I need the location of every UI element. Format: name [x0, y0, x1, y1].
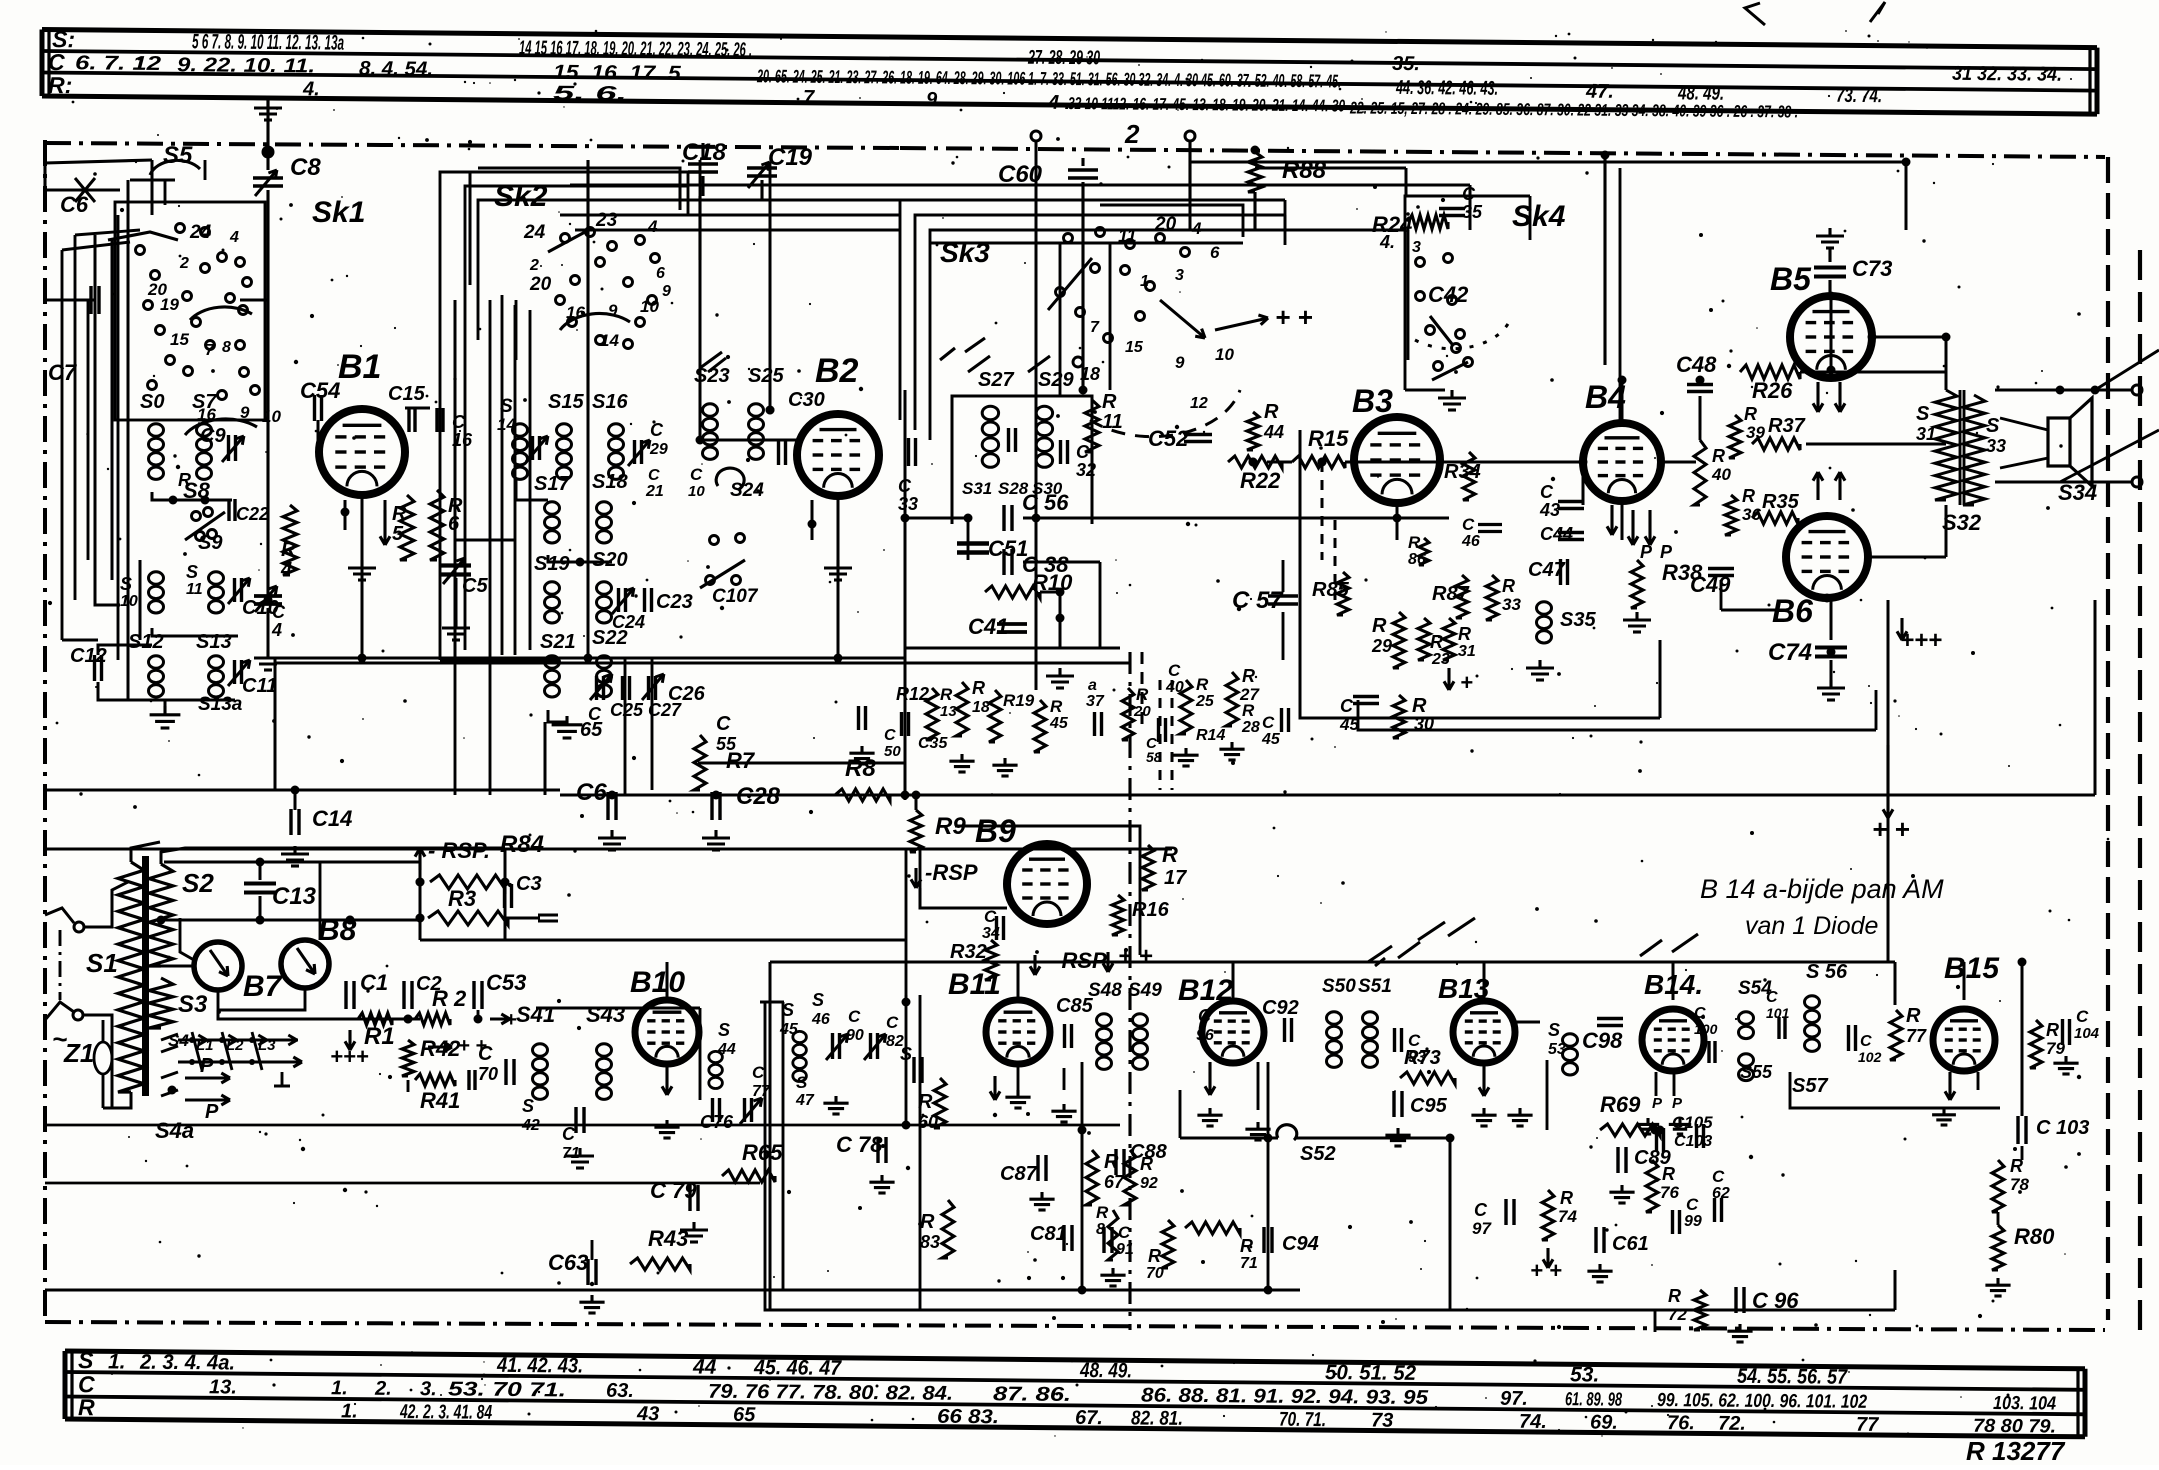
svg-text:R: R [1050, 697, 1063, 716]
svg-text:S49: S49 [1128, 980, 1162, 1001]
svg-text:B3: B3 [1352, 383, 1393, 419]
svg-text:+ +: + + [1118, 943, 1153, 970]
svg-text:S13a: S13a [198, 694, 243, 715]
svg-text:67.: 67. [1075, 1407, 1103, 1429]
svg-text:46: 46 [811, 1011, 830, 1028]
svg-text:S31: S31 [962, 479, 992, 498]
svg-text:S5: S5 [163, 142, 193, 169]
svg-text:S35: S35 [1560, 609, 1596, 631]
svg-text:4: 4 [647, 217, 658, 236]
svg-text:R38: R38 [1662, 560, 1703, 585]
svg-text:C18: C18 [682, 139, 727, 166]
svg-text:S29: S29 [1038, 369, 1074, 391]
svg-text:44: 44 [1263, 422, 1284, 442]
svg-text:76: 76 [1660, 1183, 1679, 1202]
svg-text:90: 90 [846, 1027, 864, 1044]
svg-text:2: 2 [1124, 119, 1140, 149]
svg-text:C6: C6 [576, 779, 607, 806]
svg-text:15. 16. 17. 5.: 15. 16. 17. 5. [553, 62, 687, 85]
svg-text:R: R [1560, 1188, 1573, 1208]
svg-text:33: 33 [1986, 436, 2006, 456]
svg-text:S: S [1986, 415, 2000, 437]
svg-text:C: C [650, 420, 664, 440]
svg-text:+ +: + + [1530, 1258, 1562, 1283]
svg-text:78 80 79.: 78 80 79. [1973, 1416, 2056, 1438]
svg-text:C88: C88 [1130, 1141, 1168, 1163]
svg-text:P: P [205, 1101, 219, 1123]
svg-text:S55: S55 [1740, 1062, 1773, 1082]
svg-text:S0: S0 [140, 391, 164, 413]
svg-text:R: R [78, 1394, 95, 1420]
svg-text:C 79: C 79 [650, 1178, 697, 1203]
svg-text:34: 34 [982, 925, 1000, 942]
svg-text:19: 19 [160, 295, 179, 314]
svg-text:53. 70 71.: 53. 70 71. [448, 1378, 566, 1401]
svg-text:S1: S1 [86, 948, 118, 978]
svg-text:R15: R15 [1308, 426, 1349, 451]
svg-text:+++: +++ [330, 1044, 369, 1069]
svg-text:R: R [1196, 675, 1209, 694]
svg-text:1: 1 [1140, 273, 1149, 290]
svg-text:R: R [972, 678, 985, 698]
svg-text:S9: S9 [198, 532, 223, 554]
svg-text:C42: C42 [1428, 282, 1469, 307]
svg-text:-RSP: -RSP [925, 860, 978, 885]
svg-text:C11: C11 [242, 675, 277, 697]
svg-text:S43: S43 [586, 1002, 625, 1027]
svg-text:R26: R26 [1752, 378, 1793, 403]
svg-text:C: C [1860, 1033, 1872, 1050]
svg-text:P: P [200, 1055, 214, 1077]
svg-text:C103: C103 [1674, 1133, 1712, 1150]
svg-text:44: 44 [692, 1355, 717, 1378]
svg-text:S52: S52 [1300, 1143, 1336, 1165]
svg-text:66 83.: 66 83. [937, 1406, 999, 1429]
svg-text:B1: B1 [338, 348, 381, 386]
svg-text:74: 74 [1558, 1207, 1577, 1226]
svg-text:S: S [718, 1020, 730, 1040]
svg-text:9: 9 [926, 89, 938, 111]
svg-text:C9: C9 [200, 425, 226, 447]
svg-text:S16: S16 [592, 391, 628, 413]
svg-text:R 2: R 2 [432, 986, 467, 1011]
svg-text:41. 42. 43.: 41. 42. 43. [496, 1354, 583, 1378]
svg-text:S: S [812, 990, 824, 1010]
svg-text:C73: C73 [1852, 256, 1892, 281]
svg-text:R: R [392, 503, 407, 525]
svg-text:C: C [884, 727, 896, 744]
svg-text:22. 25. 15, 27. 28 . 24. 29. 8: 22. 25. 15, 27. 28 . 24. 29. 85. 36. 87.… [1349, 98, 1798, 121]
svg-text:- RSP.: - RSP. [428, 838, 490, 863]
svg-text:C19: C19 [768, 144, 813, 171]
svg-text:C: C [716, 713, 731, 735]
svg-text:C30: C30 [788, 389, 825, 411]
svg-text:a: a [1088, 677, 1097, 694]
svg-text:S27: S27 [978, 369, 1014, 391]
svg-text:45: 45 [1049, 715, 1069, 732]
svg-text:C: C [1168, 661, 1181, 680]
svg-text:97.: 97. [1500, 1388, 1528, 1410]
svg-text:4: 4 [280, 559, 292, 581]
svg-text:R 13277: R 13277 [1966, 1436, 2066, 1465]
svg-text:C 103: C 103 [2036, 1117, 2089, 1139]
svg-text:R: R [1742, 486, 1755, 506]
svg-text:104: 104 [2074, 1025, 2100, 1042]
svg-text:C: C [1474, 1200, 1488, 1220]
svg-text:R22: R22 [1240, 468, 1281, 493]
svg-text:S4a: S4a [155, 1118, 194, 1143]
svg-text:10: 10 [1215, 345, 1234, 364]
svg-text:C15: C15 [388, 383, 426, 405]
svg-text:S12: S12 [128, 631, 164, 653]
svg-text:2: 2 [179, 255, 189, 272]
svg-text:C98: C98 [1582, 1028, 1623, 1053]
svg-text:5: 5 [392, 523, 404, 545]
svg-text:14 15 16 17. 18. 19. 20. 21. 2: 14 15 16 17. 18. 19. 20. 21. 22. 23. 24.… [519, 37, 752, 61]
svg-text:102: 102 [1858, 1049, 1882, 1065]
svg-text:S50: S50 [1322, 976, 1356, 997]
svg-text:72.: 72. [1718, 1413, 1746, 1435]
svg-text:C52: C52 [1148, 426, 1189, 451]
svg-text:100: 100 [1694, 1021, 1718, 1037]
svg-text:21: 21 [645, 483, 664, 500]
svg-text:23: 23 [595, 210, 618, 231]
svg-text:13: 13 [940, 703, 957, 720]
svg-text:45. 46. 47: 45. 46. 47 [753, 1356, 842, 1380]
svg-text:R: R [920, 1211, 935, 1233]
svg-text:C23: C23 [656, 591, 693, 613]
svg-text:20: 20 [529, 274, 552, 295]
svg-text:S25: S25 [748, 365, 784, 387]
svg-text:C 78: C 78 [836, 1132, 883, 1157]
svg-text:R: R [1102, 391, 1117, 413]
svg-text:9: 9 [662, 283, 671, 300]
svg-text:2: 2 [529, 257, 539, 274]
svg-text:70: 70 [1146, 1265, 1164, 1282]
svg-text:C53: C53 [486, 970, 526, 995]
svg-text:53.: 53. [1570, 1363, 1599, 1386]
svg-text:13.: 13. [209, 1376, 237, 1398]
svg-text:70. 71.: 70. 71. [1279, 1409, 1326, 1431]
svg-text:3: 3 [1412, 239, 1421, 256]
svg-text:86: 86 [1408, 551, 1426, 568]
svg-text:77: 77 [1856, 1414, 1879, 1436]
svg-text:C92: C92 [1262, 997, 1299, 1019]
svg-text:R: R [1242, 666, 1255, 686]
svg-text:C41: C41 [968, 614, 1008, 639]
svg-text:5. 6.: 5. 6. [553, 83, 627, 106]
svg-text:18: 18 [972, 699, 990, 716]
svg-text:7: 7 [205, 342, 215, 359]
svg-text:R37: R37 [1768, 415, 1806, 437]
svg-text:48. 49.: 48. 49. [1079, 1359, 1132, 1382]
svg-text:5 6 7. 8. 9. 10 11. 12. 13. 13: 5 6 7. 8. 9. 10 11. 12. 13. 13a [192, 30, 344, 54]
svg-text:46: 46 [1461, 533, 1480, 550]
svg-text:71: 71 [562, 1145, 580, 1162]
svg-text:R: R [1408, 533, 1421, 552]
svg-text:25: 25 [1195, 693, 1215, 710]
svg-text:9: 9 [1175, 353, 1185, 372]
svg-text:47.: 47. [1585, 81, 1614, 103]
svg-text:B 14 a-bijde pan AM: B 14 a-bijde pan AM [1700, 874, 1944, 904]
svg-text:70: 70 [478, 1064, 498, 1084]
svg-text:72: 72 [1668, 1305, 1687, 1324]
svg-text:R19: R19 [1003, 691, 1035, 710]
svg-text:6: 6 [656, 265, 665, 282]
svg-text:63.: 63. [606, 1380, 634, 1402]
svg-text:C61: C61 [1612, 1233, 1649, 1255]
svg-text:B11: B11 [948, 968, 1001, 1001]
svg-text:44: 44 [717, 1041, 736, 1058]
svg-text:28: 28 [1241, 719, 1260, 736]
svg-text:R: R [1372, 615, 1387, 637]
svg-text:4: 4 [229, 229, 239, 246]
svg-text:18: 18 [1080, 364, 1100, 384]
svg-text:R: R [1668, 1286, 1681, 1306]
svg-text:R: R [1096, 1203, 1109, 1222]
svg-text:31: 31 [1458, 643, 1476, 660]
svg-text:S41: S41 [516, 1002, 555, 1027]
svg-text:S: S [186, 562, 198, 582]
svg-text:12: 12 [1190, 395, 1208, 412]
svg-text:40: 40 [1711, 465, 1731, 484]
svg-text:54. 55. 56. 57: 54. 55. 56. 57 [1737, 1365, 1848, 1389]
svg-text:R: R [1264, 401, 1279, 423]
svg-text:S57: S57 [1792, 1075, 1828, 1097]
svg-text:31: 31 [1916, 424, 1936, 444]
svg-text:87. 86.: 87. 86. [993, 1383, 1071, 1406]
svg-text:R3: R3 [448, 886, 476, 911]
svg-text:1.: 1. [331, 1377, 348, 1399]
svg-text:C1: C1 [360, 970, 388, 995]
svg-text:65: 65 [733, 1404, 756, 1426]
svg-text:29: 29 [649, 441, 668, 458]
svg-text:C22: C22 [236, 504, 269, 524]
svg-text:R41: R41 [420, 1088, 460, 1113]
svg-text:R85: R85 [1312, 579, 1350, 601]
svg-text:B2: B2 [815, 352, 859, 390]
svg-text:S: S [120, 574, 132, 594]
svg-text:32 10 1112. 16. 17. 45. 13. 18: 32 10 1112. 16. 17. 45. 13. 18. 19. 20. … [1068, 94, 1346, 115]
svg-text:R14: R14 [1196, 727, 1225, 744]
svg-text:C: C [562, 1124, 576, 1144]
svg-text:R1: R1 [364, 1023, 395, 1050]
svg-text:C: C [1712, 1167, 1725, 1186]
svg-text:27. 28. 29 30: 27. 28. 29 30 [1027, 47, 1100, 70]
svg-text:2. 3. 4. 4a.: 2. 3. 4. 4a. [139, 1351, 235, 1375]
svg-text:10: 10 [688, 483, 705, 500]
svg-text:C: C [1694, 1005, 1706, 1022]
svg-text:R: R [2046, 1020, 2059, 1040]
svg-text:S7: S7 [192, 391, 217, 413]
svg-text:C: C [1540, 482, 1554, 502]
svg-text:96: 96 [1196, 1027, 1214, 1044]
svg-text:C25: C25 [610, 700, 644, 720]
svg-text:R34: R34 [1444, 461, 1481, 483]
svg-text:74.: 74. [1519, 1411, 1547, 1433]
svg-text:8. 4. 54.: 8. 4. 54. [359, 58, 433, 81]
svg-text:C: C [1462, 515, 1475, 534]
svg-text:C94: C94 [1282, 1233, 1319, 1255]
svg-text:4: 4 [1191, 219, 1202, 238]
svg-text:C: C [648, 467, 660, 484]
svg-text:33: 33 [1502, 595, 1521, 614]
svg-text:65: 65 [580, 719, 603, 741]
svg-text:3: 3 [1175, 267, 1184, 284]
svg-text:11: 11 [186, 581, 203, 598]
svg-text:14: 14 [600, 331, 619, 350]
svg-text:C48: C48 [1676, 352, 1717, 377]
svg-text:R73: R73 [1404, 1047, 1441, 1069]
svg-text:B15: B15 [1944, 952, 2000, 985]
svg-text:R: R [281, 539, 296, 561]
svg-text:C: C [1766, 989, 1778, 1006]
svg-text:S21: S21 [540, 631, 576, 653]
svg-text:S13: S13 [196, 631, 232, 653]
svg-text:7.: 7. [803, 87, 820, 109]
svg-text:C3: C3 [516, 873, 542, 895]
svg-text:73: 73 [1371, 1410, 1393, 1432]
svg-text:R: R [940, 685, 953, 704]
svg-text:C: C [478, 1043, 493, 1065]
svg-text:50. 51. 52: 50. 51. 52 [1325, 1361, 1417, 1385]
svg-text:C: C [2076, 1007, 2089, 1026]
svg-text:B10: B10 [630, 966, 685, 999]
svg-text:C: C [1686, 1195, 1699, 1214]
svg-text:31 32. 33. 34.: 31 32. 33. 34. [1952, 63, 2062, 86]
svg-text:103. 104: 103. 104 [1993, 1393, 2057, 1415]
svg-text:R: R [1162, 842, 1178, 867]
svg-text:R84: R84 [500, 831, 544, 858]
svg-text:15: 15 [170, 330, 189, 349]
svg-text:C: C [848, 1007, 861, 1026]
svg-text:71: 71 [1240, 1255, 1258, 1272]
svg-text:C13: C13 [272, 883, 317, 910]
svg-text:97: 97 [1472, 1219, 1492, 1238]
svg-text:50: 50 [884, 743, 901, 760]
svg-text:S18: S18 [592, 471, 628, 493]
svg-text:C35: C35 [918, 735, 948, 752]
svg-text:P: P [1640, 542, 1653, 562]
svg-text:C87: C87 [1000, 1163, 1038, 1185]
svg-text:R87: R87 [1432, 583, 1470, 605]
svg-text:79. 76 77. 78. 80. 82. 84.: 79. 76 77. 78. 80. 82. 84. [708, 1381, 953, 1405]
svg-text:R69: R69 [1600, 1092, 1641, 1117]
svg-text:C: C [1198, 1006, 1212, 1026]
svg-text:C28: C28 [736, 783, 781, 810]
svg-text:35: 35 [1462, 202, 1483, 222]
svg-text:S51: S51 [1358, 976, 1392, 997]
svg-text:S 56: S 56 [1806, 961, 1848, 983]
svg-text:R: R [1502, 576, 1515, 596]
svg-text:P: P [1652, 1095, 1663, 1112]
svg-text:9: 9 [608, 301, 618, 320]
svg-text:4.: 4. [1379, 232, 1395, 252]
svg-text:42: 42 [521, 1117, 540, 1134]
svg-text:37: 37 [1086, 693, 1105, 710]
svg-text:C63: C63 [548, 1250, 588, 1275]
svg-text:R32: R32 [950, 941, 987, 963]
svg-text:van 1 Diode: van 1 Diode [1745, 912, 1878, 940]
svg-text:4.: 4. [302, 78, 320, 100]
svg-text:82. 81.: 82. 81. [1131, 1407, 1183, 1429]
svg-text:3.: 3. [420, 1378, 437, 1400]
svg-text:C: C [1340, 696, 1354, 716]
svg-text:43: 43 [1539, 500, 1560, 520]
svg-text:10: 10 [120, 593, 138, 610]
svg-text:C6: C6 [60, 192, 89, 217]
svg-text:S3: S3 [178, 991, 208, 1018]
svg-text:6: 6 [1210, 243, 1220, 262]
svg-text:S: S [522, 1096, 534, 1116]
svg-text:S: S [78, 1347, 94, 1373]
svg-text:R: R [1744, 404, 1757, 424]
svg-text:+: + [1460, 670, 1473, 695]
svg-text:99: 99 [1684, 1213, 1702, 1230]
svg-text:C24: C24 [612, 612, 645, 632]
svg-text:4: 4 [271, 620, 282, 640]
svg-text:C8: C8 [290, 154, 321, 181]
svg-text:C76: C76 [700, 1112, 734, 1132]
svg-text:C: C [1118, 1223, 1131, 1242]
svg-text:S: S [1916, 403, 1930, 425]
svg-text:44. 36. 42. 46. 43.: 44. 36. 42. 46. 43. [1395, 77, 1498, 100]
svg-text:92: 92 [1140, 1175, 1158, 1192]
svg-text:C95: C95 [1410, 1095, 1448, 1117]
svg-text:S34: S34 [2058, 480, 2097, 505]
svg-text:61. 89. 98: 61. 89. 98 [1565, 1389, 1622, 1411]
svg-text:99. 105. 62. 100. 96. 101. 102: 99. 105. 62. 100. 96. 101. 102 [1657, 1390, 1868, 1413]
svg-text:4 .: 4 . [1047, 92, 1070, 114]
svg-text:9. 22. 10. 11.: 9. 22. 10. 11. [177, 54, 315, 77]
svg-text:73. 74.: 73. 74. [1836, 85, 1882, 107]
svg-text:86. 88. 81. 91. 92. 94. 93: 86. 88. 81. 91. 92. 94. 93. 95 [1141, 1385, 1429, 1410]
svg-text:R: R [1458, 624, 1471, 644]
svg-text:C: C [1262, 713, 1275, 732]
svg-text:C 56: C 56 [1022, 490, 1069, 515]
svg-text:S15: S15 [548, 391, 584, 413]
svg-text:R: R [1148, 1246, 1161, 1266]
svg-text:R16: R16 [1132, 899, 1170, 921]
svg-text:Sk1: Sk1 [312, 196, 365, 229]
svg-text:+ +: + + [1872, 814, 1910, 844]
svg-text:47: 47 [795, 1092, 815, 1109]
svg-text:+ +: + + [1275, 302, 1313, 332]
svg-text:C: C [886, 1013, 899, 1032]
svg-text:L2: L2 [226, 1037, 244, 1054]
svg-text:C: C [752, 1063, 765, 1082]
svg-text:R: R [1662, 1164, 1675, 1184]
svg-text:45: 45 [1261, 731, 1281, 748]
svg-text:10: 10 [640, 297, 659, 316]
svg-text:S8: S8 [183, 478, 211, 503]
svg-text:B5: B5 [1770, 261, 1812, 297]
svg-text:C: C [272, 602, 286, 622]
svg-text:C54: C54 [300, 378, 340, 403]
svg-text:S: S [1548, 1020, 1560, 1040]
svg-text:B9: B9 [975, 813, 1016, 849]
svg-text:C26: C26 [668, 683, 706, 705]
svg-text:33: 33 [898, 494, 918, 514]
svg-text:R: R [1712, 446, 1725, 466]
svg-text:76.: 76. [1667, 1412, 1695, 1434]
svg-text:S17: S17 [534, 473, 570, 495]
svg-text:L3: L3 [258, 1037, 276, 1054]
svg-text:R: R [1242, 701, 1255, 720]
svg-text:C107: C107 [712, 586, 759, 607]
svg-text:C12: C12 [70, 645, 107, 667]
svg-text:83: 83 [920, 1232, 940, 1252]
